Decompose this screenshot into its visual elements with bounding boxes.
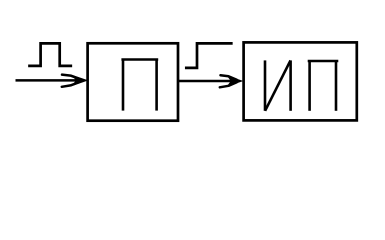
- input wire: [16, 79, 81, 82]
- letter И: [265, 60, 291, 110]
- block U1 (pulse shaper) box: [88, 43, 178, 120]
- block U1 symbol П: [121, 60, 158, 111]
- wire U1 to U2: [178, 80, 235, 83]
- input pulse symbol: [30, 43, 71, 66]
- arrowhead into U2: [220, 75, 244, 87]
- output step symbol: [186, 43, 231, 68]
- block U2 (ИП measuring device) box: [244, 42, 357, 120]
- input arrowhead: [62, 75, 89, 87]
- letter П: [308, 61, 339, 111]
